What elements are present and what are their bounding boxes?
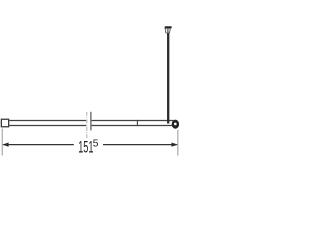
extension line left [1,129,3,156]
right arrowhead [172,143,178,147]
ceiling flange [165,26,172,28]
rod right section top line [92,120,174,122]
ring end hole [174,123,177,126]
extension line right [177,130,179,156]
dimension line left segment [3,144,73,146]
ring end outer [172,120,179,129]
center dash-dot line [86,112,88,138]
joint tick [136,120,138,126]
mid break line [90,112,92,131]
rod left section top line [9,120,86,122]
ceiling cup [165,28,170,33]
left wall cap [1,119,8,127]
svg-text:5: 5 [93,139,99,150]
dimension line right segment [103,144,177,146]
ceiling cup center pin [167,29,169,33]
left arrowhead [2,143,8,147]
svg-text:151: 151 [78,138,93,157]
vertical ceiling rod [167,33,169,124]
rod left section bottom line [9,125,86,127]
rod right section bottom line [92,125,174,127]
